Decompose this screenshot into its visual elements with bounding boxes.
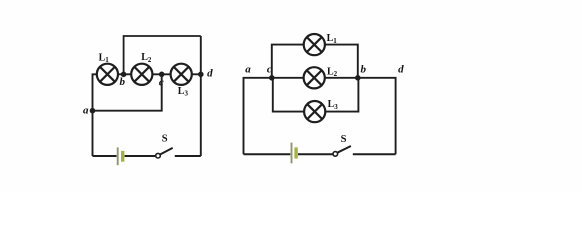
lamp L1 (left circuit) (97, 64, 118, 85)
node b (left circuit) (121, 72, 127, 78)
wire: link from node a right and up to node c (93, 74, 162, 110)
svg-text:b: b (120, 76, 126, 88)
switch S (left circuit): open lever (160, 148, 173, 155)
lamp L2 (left circuit) (131, 64, 152, 85)
node b (right circuit) (355, 75, 361, 81)
wire: right outer branch from node b over corner d down to bottom rail (358, 78, 396, 155)
node d (left circuit) (198, 72, 204, 78)
wire: right vertical from top link through node d to bottom rail (200, 36, 202, 156)
battery (left circuit): long thin positive plate (117, 147, 119, 165)
battery (right circuit): short thick negative plate (294, 147, 297, 158)
wire: bottom rail from battery to switch (298, 153, 333, 155)
wire: left outer branch from corner a down to bottom rail (244, 78, 272, 155)
wire: L2 to L3 through node c (152, 73, 170, 75)
wire: L3 to node d (192, 73, 201, 75)
wire: top parallel branch from node c up to lamp L1 (272, 45, 304, 78)
wire: bottom rail right segment after switch (353, 153, 396, 155)
switch S (right circuit): pivot circle (333, 152, 338, 157)
wire: bottom rail right segment after switch (175, 155, 201, 157)
svg-text:a: a (245, 64, 251, 76)
wire: bottom parallel branch from lamp L3 up to node b (325, 78, 358, 112)
svg-text:a: a (83, 105, 89, 117)
svg-text:b: b (360, 64, 366, 76)
lamp L1 (right circuit) (304, 34, 325, 55)
svg-text:d: d (398, 64, 404, 76)
lamp L2 (right circuit) (304, 67, 325, 88)
wire: bottom rail left segment to battery (93, 155, 117, 157)
svg-text:S: S (341, 134, 347, 145)
wire: middle rail from node c to lamp L2 (272, 77, 304, 79)
node c (right circuit) (269, 75, 275, 81)
switch S (left circuit): pivot circle (156, 153, 161, 158)
battery (left circuit): short thick negative plate (121, 151, 124, 162)
svg-text:d: d (207, 67, 213, 79)
wire: left vertical from L1 down through node a to bottom rail (93, 74, 98, 156)
battery (right circuit): long thin positive plate (291, 143, 293, 164)
wire: top link from node b up over to node d (124, 36, 201, 74)
wire: L1 to L2 through node b (118, 73, 131, 75)
wire: bottom rail from battery to switch (125, 155, 156, 157)
lamp L3 (left circuit) (171, 64, 192, 85)
node c (left circuit) (159, 72, 165, 78)
svg-text:S: S (162, 133, 168, 144)
node a (left circuit) (90, 108, 96, 114)
lamp L3 (right circuit) (304, 101, 325, 122)
wire: middle rail from lamp L2 to node b (325, 77, 358, 79)
wire: bottom parallel branch from node c down to lamp L3 (273, 78, 304, 112)
wire: bottom rail left segment to battery (244, 153, 291, 155)
wire: top parallel branch from lamp L1 down to node b (325, 45, 358, 78)
switch S (right circuit): open lever (337, 146, 351, 153)
